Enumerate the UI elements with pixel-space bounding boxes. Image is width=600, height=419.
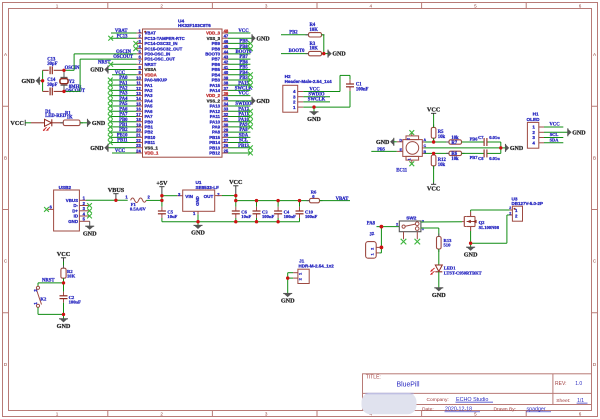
svg-text:PB7: PB7 [239,55,248,60]
svg-text:NRST: NRST [42,279,55,284]
svg-text:PB2: PB2 [289,30,298,35]
svg-text:VCC: VCC [238,92,249,97]
svg-text:PB13: PB13 [238,144,249,149]
svg-text:+5V: +5V [156,180,168,187]
svg-text:PA8: PA8 [239,128,248,133]
svg-text:A: A [593,52,597,57]
svg-text:J2: J2 [369,231,375,237]
svg-text:SWDIO: SWDIO [235,102,252,107]
svg-text:VBAT: VBAT [336,197,350,202]
svg-text:10uF: 10uF [167,214,177,219]
svg-text:3: 3 [422,218,425,223]
svg-text:REV:: REV: [555,381,566,387]
svg-text:3: 3 [265,412,268,417]
svg-text:PA12: PA12 [238,107,249,112]
svg-text:10K: 10K [67,274,76,279]
svg-text:VCC: VCC [427,107,440,114]
svg-text:GND: GND [307,116,321,123]
svg-text:2: 2 [370,248,374,250]
svg-text:30pF: 30pF [47,83,57,88]
svg-text:BOOT0: BOOT0 [236,50,253,55]
svg-text:1: 1 [370,253,374,255]
svg-text:1: 1 [532,125,535,130]
svg-text:USB2: USB2 [59,185,72,190]
svg-text:2: 2 [509,211,511,215]
svg-text:100nF: 100nF [69,300,81,305]
svg-text:1: 1 [56,4,59,9]
svg-text:BOOT0: BOOT0 [289,49,306,54]
svg-text:D: D [4,362,8,367]
svg-text:5: 5 [474,4,477,9]
svg-text:GND: GND [256,99,270,105]
svg-text:GND: GND [256,36,270,42]
svg-text:C7: C7 [478,135,484,140]
svg-text:GND: GND [83,230,97,237]
svg-text:PB6: PB6 [239,60,248,65]
svg-text:GND: GND [332,52,346,58]
svg-text:Company:: Company: [427,397,449,403]
svg-text:VCC: VCC [427,185,440,192]
svg-text:OUT: OUT [204,194,214,199]
svg-text:GND: GND [92,121,106,127]
svg-text:2: 2 [396,221,399,226]
svg-text:100nF: 100nF [284,214,296,219]
svg-text:2: 2 [217,192,220,197]
svg-text:10k: 10k [451,157,459,162]
svg-text:10k: 10k [438,135,446,140]
svg-text:D: D [399,138,402,142]
svg-text:3: 3 [532,135,535,140]
svg-text:2: 2 [407,138,411,140]
svg-text:510: 510 [444,243,452,248]
svg-text:1: 1 [56,412,59,417]
svg-text:PA11: PA11 [238,113,249,118]
svg-text:VCC: VCC [57,251,70,258]
svg-text:1: 1 [408,158,412,160]
svg-text:6: 6 [579,412,582,417]
svg-text:1K: 1K [67,116,73,121]
svg-text:0.01u: 0.01u [489,156,500,161]
svg-text:PB11: PB11 [117,139,128,144]
svg-text:C8: C8 [478,156,484,161]
svg-text:10K: 10K [310,28,319,33]
svg-text:Header-Male-2.54_1x4: Header-Male-2.54_1x4 [285,79,333,84]
svg-text:GND: GND [68,219,78,224]
svg-text:GND: GND [281,298,295,305]
svg-text:EC11: EC11 [396,169,408,174]
svg-text:2: 2 [509,206,511,210]
svg-text:GND: GND [22,79,36,85]
svg-text:4: 4 [532,141,535,146]
svg-text:10uF: 10uF [241,214,251,219]
svg-text:1: 1 [125,194,128,199]
svg-text:100nF: 100nF [262,214,274,219]
svg-text:R7: R7 [451,141,457,146]
svg-text:2: 2 [515,214,518,219]
svg-text:Drawn By:: Drawn By: [494,407,517,413]
svg-text:GND: GND [90,68,104,74]
svg-text:HDR-M-2.54_1x2: HDR-M-2.54_1x2 [299,263,335,268]
svg-text:3: 3 [265,4,268,9]
svg-text:SE8533-LF: SE8533-LF [196,185,220,190]
svg-text:VCC: VCC [549,123,560,128]
svg-text:GND: GND [510,146,524,152]
svg-text:D: D [593,362,597,367]
svg-text:1: 1 [293,105,296,110]
svg-text:VIN: VIN [185,194,193,199]
svg-text:4: 4 [370,4,373,9]
svg-text:D-: D- [73,203,78,208]
svg-text:PC13: PC13 [117,34,129,39]
svg-text:PB7: PB7 [470,155,479,160]
svg-text:0.5A/6V: 0.5A/6V [130,207,147,212]
svg-text:B: B [4,155,7,160]
svg-text:10K: 10K [310,47,319,52]
svg-text:H2: H2 [285,74,291,79]
svg-text:100nF: 100nF [356,87,369,92]
svg-text:C: C [4,259,8,264]
svg-text:C: C [593,259,597,264]
svg-text:HK32F103C8T6: HK32F103C8T6 [178,23,211,28]
svg-text:PB5: PB5 [239,66,248,71]
svg-text:0.01u: 0.01u [489,135,500,140]
svg-text:LED-RED: LED-RED [45,114,67,119]
svg-text:SWCLK: SWCLK [308,98,326,103]
svg-text:2: 2 [148,194,151,199]
svg-text:PB5: PB5 [377,146,386,151]
svg-text:PB3: PB3 [239,76,248,81]
svg-text:PA8: PA8 [367,222,376,227]
svg-text:OLED: OLED [527,117,541,122]
svg-text:SL100N08: SL100N08 [479,225,500,230]
svg-text:A: A [4,52,8,57]
svg-text:GND: GND [572,130,586,136]
svg-text:PB12: PB12 [209,151,220,156]
svg-text:TITLE:: TITLE: [366,375,381,381]
svg-text:VDD_1: VDD_1 [145,151,159,156]
svg-text:100nF: 100nF [305,214,317,219]
svg-text:SCL: SCL [550,132,559,137]
svg-text:DB127V-5.0-2P: DB127V-5.0-2P [512,201,544,206]
svg-text:VCC: VCC [115,149,126,154]
svg-text:BluePill: BluePill [397,381,420,388]
svg-text:VBUS: VBUS [108,187,125,194]
svg-text:GND: GND [432,292,446,299]
svg-text:SDA: SDA [239,133,249,138]
svg-text:PB8: PB8 [239,45,248,50]
svg-text:GND: GND [376,140,390,146]
svg-text:ID: ID [74,214,78,219]
svg-text:SCL: SCL [239,139,248,144]
svg-text:Date:: Date: [422,407,434,413]
svg-text:VCC: VCC [229,179,242,186]
svg-text:2: 2 [160,412,163,417]
svg-text:VCC: VCC [10,120,23,127]
svg-text:SDA: SDA [550,138,560,143]
svg-text:GND: GND [57,323,71,330]
svg-text:VCC: VCC [238,29,249,34]
svg-text:2: 2 [160,4,163,9]
svg-text:Sheet:: Sheet: [556,398,570,404]
svg-text:1: 1 [33,302,38,305]
svg-text:1.0: 1.0 [575,381,582,387]
svg-text:GND: GND [464,251,478,258]
svg-text:10k: 10k [438,163,446,168]
svg-text:PB9: PB9 [239,40,248,45]
svg-text:30pF: 30pF [47,62,57,67]
svg-text:K2: K2 [40,297,47,302]
svg-text:H1: H1 [533,112,539,117]
svg-text:5: 5 [474,412,477,417]
svg-text:B: B [593,155,596,160]
svg-text:GND: GND [191,230,205,237]
svg-text:GND: GND [90,146,104,152]
svg-text:SW2: SW2 [406,215,417,220]
svg-text:PB4: PB4 [239,71,248,76]
svg-text:GND: GND [195,196,200,206]
svg-text:PA9: PA9 [239,123,248,128]
svg-text:LTST-C950RTBKT: LTST-C950RTBKT [444,270,482,275]
svg-text:6: 6 [579,4,582,9]
svg-text:SWCLK: SWCLK [235,86,253,91]
svg-text:6: 6 [50,204,53,209]
svg-text:3: 3 [178,192,181,197]
svg-text:PB6: PB6 [470,137,479,142]
